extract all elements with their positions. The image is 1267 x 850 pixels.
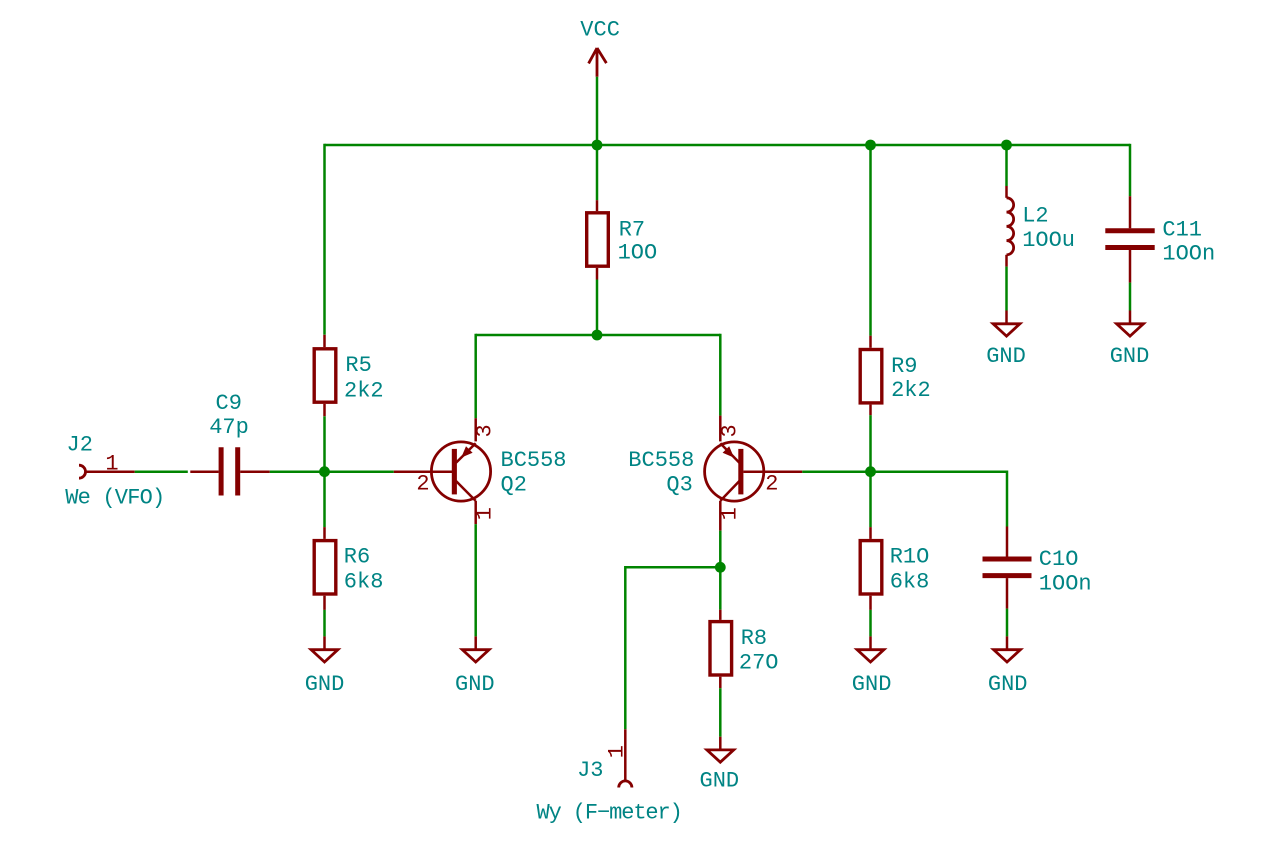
wire Q3 emitter down to R8 [719, 531, 722, 610]
wire VCC stem down to top rail and R7 [596, 77, 599, 201]
Q3 body circle [705, 442, 764, 501]
ground under C10 [988, 636, 1028, 697]
R8 pin 1 [719, 610, 722, 620]
capacitor C10 [983, 527, 1092, 609]
R10 pin 1 [869, 527, 872, 539]
ground stub [1129, 311, 1132, 324]
J2 pin 1 [86, 470, 135, 473]
wire J3 row [625, 566, 720, 569]
ground stub [323, 636, 326, 649]
R5 pin 1 [323, 335, 326, 347]
R7 pin 2 [596, 268, 599, 280]
svg-text:2k2: 2k2 [891, 378, 931, 403]
J3 pin 1 [624, 729, 627, 780]
wire L2 to ground [1005, 267, 1008, 311]
wire R6 to ground [323, 610, 326, 637]
R8 pin 2 [719, 677, 722, 689]
L2 pin 1 [1005, 186, 1008, 198]
wire C10 to ground [1006, 609, 1009, 637]
transistor Q3 [628, 416, 802, 531]
junction mid rail / R7 [592, 330, 603, 341]
R5 body [314, 349, 336, 402]
ground stub [719, 737, 722, 750]
wire R9 to R10 through output node [869, 415, 872, 527]
Q2 base pin 2 [394, 470, 455, 473]
wire Q3 base to output node [802, 470, 1007, 473]
Q2 emitter pin 3 [474, 418, 477, 441]
transistor Q2 [394, 418, 567, 524]
L2 coil [1007, 198, 1014, 255]
resistor R8 [710, 610, 779, 689]
svg-text:Wy (F−meter): Wy (F−meter) [537, 801, 682, 826]
wire R8 to ground [719, 688, 722, 737]
ground stub [474, 636, 477, 649]
Q3 emitter pin 3 [719, 416, 722, 442]
junction top rail / R7 [592, 140, 603, 151]
ground under R8 [700, 737, 740, 794]
C11 plate 1 [1105, 228, 1154, 233]
svg-text:R6: R6 [344, 544, 370, 569]
wire top power rail [325, 144, 1131, 147]
Q3 base pin 2 [743, 470, 802, 473]
inductor L2 [1007, 186, 1076, 267]
junction base node / R5 / R6 [319, 466, 330, 477]
J2 socket arc [79, 465, 86, 478]
svg-text:GND: GND [852, 672, 892, 697]
R9 pin 1 [869, 336, 872, 348]
Q2 emitter arrow [461, 446, 472, 457]
R6 pin 1 [323, 527, 326, 539]
svg-text:R9: R9 [891, 354, 917, 379]
junction top rail / L2 [1001, 140, 1012, 151]
svg-text:C9: C9 [216, 391, 242, 416]
ground stub [1005, 311, 1008, 324]
Q3 emitter diagonal [720, 443, 739, 463]
svg-text:J2: J2 [67, 433, 93, 458]
junction output node / R9 / R10 [865, 466, 876, 477]
power symbol VCC arrow [589, 48, 607, 77]
Q2 body circle [431, 442, 490, 501]
junction Q3 emitter / R8 / J3 [715, 562, 726, 573]
ground triangle [994, 650, 1021, 662]
ground triangle [707, 750, 734, 762]
wire mid rail drop to Q2 [474, 334, 477, 418]
wire mid rail between Q2 and Q3 collectors [476, 334, 721, 337]
svg-text:1OOn: 1OOn [1162, 241, 1215, 266]
ground under Q2 [455, 636, 495, 697]
ground triangle [1117, 324, 1144, 336]
svg-text:47p: 47p [209, 415, 249, 440]
svg-text:C1O: C1O [1039, 547, 1079, 572]
J3 socket arc [619, 781, 632, 788]
C9 pin 2 [240, 470, 270, 473]
wire C11 to ground [1129, 283, 1132, 311]
Q3 emitter arrow [723, 446, 734, 457]
svg-text:1: 1 [472, 507, 497, 520]
ground stub [869, 636, 872, 649]
svg-text:J3: J3 [577, 758, 603, 783]
R9 body [860, 350, 882, 403]
ground triangle [857, 650, 884, 662]
capacitor C9 [190, 391, 269, 496]
ground under R6 [305, 636, 345, 697]
C11 pin 2 [1129, 250, 1132, 283]
C11 pin 1 [1129, 196, 1132, 228]
C10 pin 1 [1006, 527, 1009, 557]
wire R5 to R6 through base node [323, 416, 326, 527]
svg-text:GND: GND [1110, 344, 1150, 369]
svg-text:VCC: VCC [580, 17, 620, 42]
wire J3 drop [624, 566, 627, 729]
wire C9 to Q2 base node [270, 470, 394, 473]
svg-text:6k8: 6k8 [890, 569, 930, 594]
svg-text:GND: GND [305, 672, 345, 697]
resistor R6 [314, 527, 383, 610]
R7 pin 1 [596, 200, 599, 211]
R5 pin 2 [323, 404, 326, 416]
svg-text:2: 2 [765, 471, 778, 496]
svg-text:C11: C11 [1162, 218, 1202, 243]
R6 pin 2 [323, 596, 326, 610]
svg-text:GND: GND [700, 769, 740, 794]
connector J2 [65, 433, 164, 511]
svg-text:1: 1 [718, 507, 743, 520]
resistor R5 [314, 335, 383, 416]
R8 body [710, 622, 732, 675]
svg-text:R8: R8 [741, 626, 767, 651]
svg-text:R7: R7 [619, 218, 645, 243]
svg-text:3: 3 [718, 424, 743, 437]
wire R10 to ground [869, 610, 872, 637]
svg-text:R5: R5 [345, 353, 371, 378]
L2 pin 2 [1005, 255, 1008, 267]
wire left drop from top rail to R5 [323, 144, 326, 335]
ground triangle [993, 324, 1020, 336]
svg-text:GND: GND [455, 672, 495, 697]
C9 pin 1 [190, 470, 218, 473]
svg-text:L2: L2 [1022, 204, 1048, 229]
svg-text:27O: 27O [739, 651, 779, 676]
R7 body [587, 213, 609, 266]
C9 plate 1 [219, 447, 224, 495]
C10 plate 1 [983, 557, 1032, 562]
ground stub [1006, 636, 1009, 649]
R10 pin 2 [869, 596, 872, 610]
C10 plate 2 [983, 573, 1032, 578]
svg-text:Q2: Q2 [501, 473, 527, 498]
C9 plate 2 [235, 447, 240, 495]
wire drop from top rail to R9 [869, 145, 872, 336]
R10 body [860, 541, 882, 594]
ground triangle [462, 650, 489, 662]
wire mid rail drop to Q3 [719, 334, 722, 416]
C10 pin 2 [1006, 578, 1009, 609]
R9 pin 2 [869, 405, 872, 416]
resistor R10 [860, 527, 929, 610]
wire Q2 collector to ground [474, 524, 477, 636]
R6 body [314, 541, 336, 594]
svg-text:1OOu: 1OOu [1022, 228, 1075, 253]
svg-text:1OO: 1OO [618, 241, 658, 266]
resistor R7 [587, 200, 658, 279]
svg-text:1OOn: 1OOn [1039, 572, 1092, 597]
wire output corner down to C10 [1006, 471, 1009, 527]
svg-text:1: 1 [105, 452, 118, 477]
svg-text:GND: GND [988, 672, 1028, 697]
Q2 collector pin 1 [474, 501, 477, 524]
svg-text:3: 3 [472, 424, 497, 437]
Q3 base bar [738, 449, 743, 495]
junction top rail / R9 [865, 140, 876, 151]
ground under C11 [1110, 311, 1150, 370]
wire R7 to mid rail [596, 280, 599, 336]
wire drop from top rail to C11 [1129, 144, 1132, 196]
ground under R10 [852, 636, 892, 697]
svg-text:BC558: BC558 [628, 448, 694, 473]
Q3 collector diagonal [720, 481, 739, 501]
svg-text:GND: GND [986, 344, 1026, 369]
resistor R9 [860, 336, 931, 415]
svg-text:2: 2 [416, 471, 429, 496]
ground under L2 [986, 311, 1026, 370]
svg-text:Q3: Q3 [666, 473, 692, 498]
Q2 emitter diagonal [456, 443, 476, 463]
wire J2 to C9 [135, 470, 188, 473]
svg-text:6k8: 6k8 [344, 569, 384, 594]
svg-text:R1O: R1O [890, 544, 930, 569]
ground triangle [311, 650, 338, 662]
Q2 base bar [452, 449, 457, 495]
svg-text:We (VFO): We (VFO) [65, 486, 164, 511]
wire drop from top rail to L2 [1005, 145, 1008, 186]
svg-text:1: 1 [604, 745, 629, 758]
svg-text:2k2: 2k2 [344, 378, 384, 403]
connector J3 [537, 729, 682, 825]
C11 plate 2 [1105, 245, 1154, 250]
capacitor C11 [1105, 196, 1215, 282]
Q2 collector diagonal [456, 481, 476, 501]
Q3 collector pin 1 [719, 501, 722, 531]
svg-text:BC558: BC558 [501, 448, 567, 473]
